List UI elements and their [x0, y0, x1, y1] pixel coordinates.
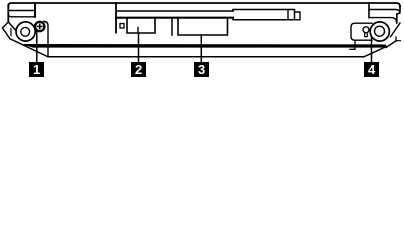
- callout box 2: [131, 62, 146, 77]
- right connector inner circle: [375, 26, 385, 36]
- svg-text:3: 3: [198, 62, 205, 77]
- left deck upper step line: [8, 10, 35, 12]
- raised hinge block: [233, 10, 295, 20]
- leader line 3: [200, 35, 202, 62]
- bottom left wedge upper diagonal: [3, 22, 9, 28]
- front bottom edge line: [48, 56, 364, 58]
- front right bar taper diagonal: [386, 41, 397, 48]
- left connector inner circle: [21, 27, 30, 36]
- keyhole circle: [363, 27, 369, 33]
- svg-text:2: 2: [135, 62, 142, 77]
- right connector outer circle: [370, 22, 389, 41]
- left rear edge: [7, 5, 9, 22]
- svg-text:4: 4: [368, 62, 376, 77]
- screw head circle: [35, 22, 44, 31]
- right panel vertical: [350, 40, 355, 49]
- leader line 4: [371, 37, 373, 62]
- hinge block end cap: [295, 12, 301, 20]
- center deck top line: [116, 10, 233, 12]
- right rear edge: [397, 6, 400, 23]
- screw head cross vertical: [39, 24, 41, 28]
- callout box 3: [194, 62, 209, 77]
- front top edge bar: [24, 44, 387, 48]
- side panel edge arc and vertical: [44, 21, 48, 57]
- keyhole stem: [365, 33, 368, 37]
- front right lower taper diagonal: [364, 47, 387, 57]
- port bay left wall: [115, 3, 117, 33]
- bottom left wedge lower diagonal: [3, 28, 11, 39]
- port 2 rectangle: [127, 19, 155, 33]
- callout box 1: [29, 62, 44, 77]
- right deck upper step line: [369, 10, 400, 14]
- outer top edge: [8, 3, 400, 6]
- main deck front edge: [116, 17, 233, 19]
- left connector outer circle: [16, 22, 35, 41]
- small square port: [120, 24, 124, 29]
- port 3 rectangle: [178, 19, 228, 35]
- kensington slot plate: [351, 23, 372, 40]
- right corner tick: [396, 37, 401, 41]
- callout box 4: [364, 62, 379, 77]
- leader line 2: [138, 33, 140, 62]
- left tangent diagonal to circle: [8, 22, 15, 30]
- left deck lower step line: [8, 14, 35, 17]
- right edge wedge diagonal: [391, 23, 401, 37]
- port 2 inner divider: [137, 28, 139, 34]
- bottom left long diagonal: [10, 39, 48, 57]
- right deck vertical: [368, 3, 370, 18]
- hinge block inner end wall: [287, 10, 289, 20]
- svg-text:1: 1: [33, 62, 40, 77]
- port 3 outer left wall: [171, 19, 173, 35]
- left deck vertical: [34, 3, 36, 17]
- right deck lower step line: [369, 18, 397, 22]
- screw head cross horizontal: [38, 26, 42, 28]
- leader line 1: [36, 32, 38, 63]
- bottom left wedge inner vertical: [10, 29, 12, 36]
